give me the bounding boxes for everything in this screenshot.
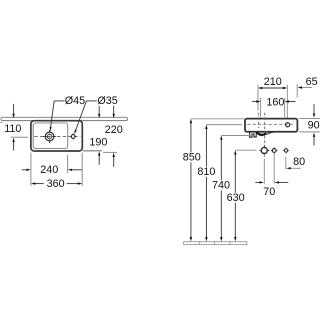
svg-text:740: 740: [212, 180, 230, 192]
svg-text:850: 850: [183, 152, 201, 164]
svg-text:90: 90: [308, 120, 320, 132]
svg-text:160: 160: [266, 96, 284, 108]
svg-text:Ø35: Ø35: [97, 95, 117, 107]
svg-text:Ø45: Ø45: [65, 95, 85, 107]
svg-text:210: 210: [264, 76, 282, 88]
svg-text:65: 65: [306, 76, 318, 88]
svg-text:220: 220: [105, 124, 123, 136]
svg-text:240: 240: [40, 164, 58, 176]
svg-text:70: 70: [263, 186, 275, 198]
svg-text:110: 110: [4, 123, 21, 135]
svg-text:190: 190: [89, 137, 107, 149]
svg-text:810: 810: [197, 166, 215, 178]
svg-text:80: 80: [293, 156, 305, 168]
svg-text:360: 360: [47, 178, 65, 190]
svg-text:630: 630: [227, 192, 245, 204]
